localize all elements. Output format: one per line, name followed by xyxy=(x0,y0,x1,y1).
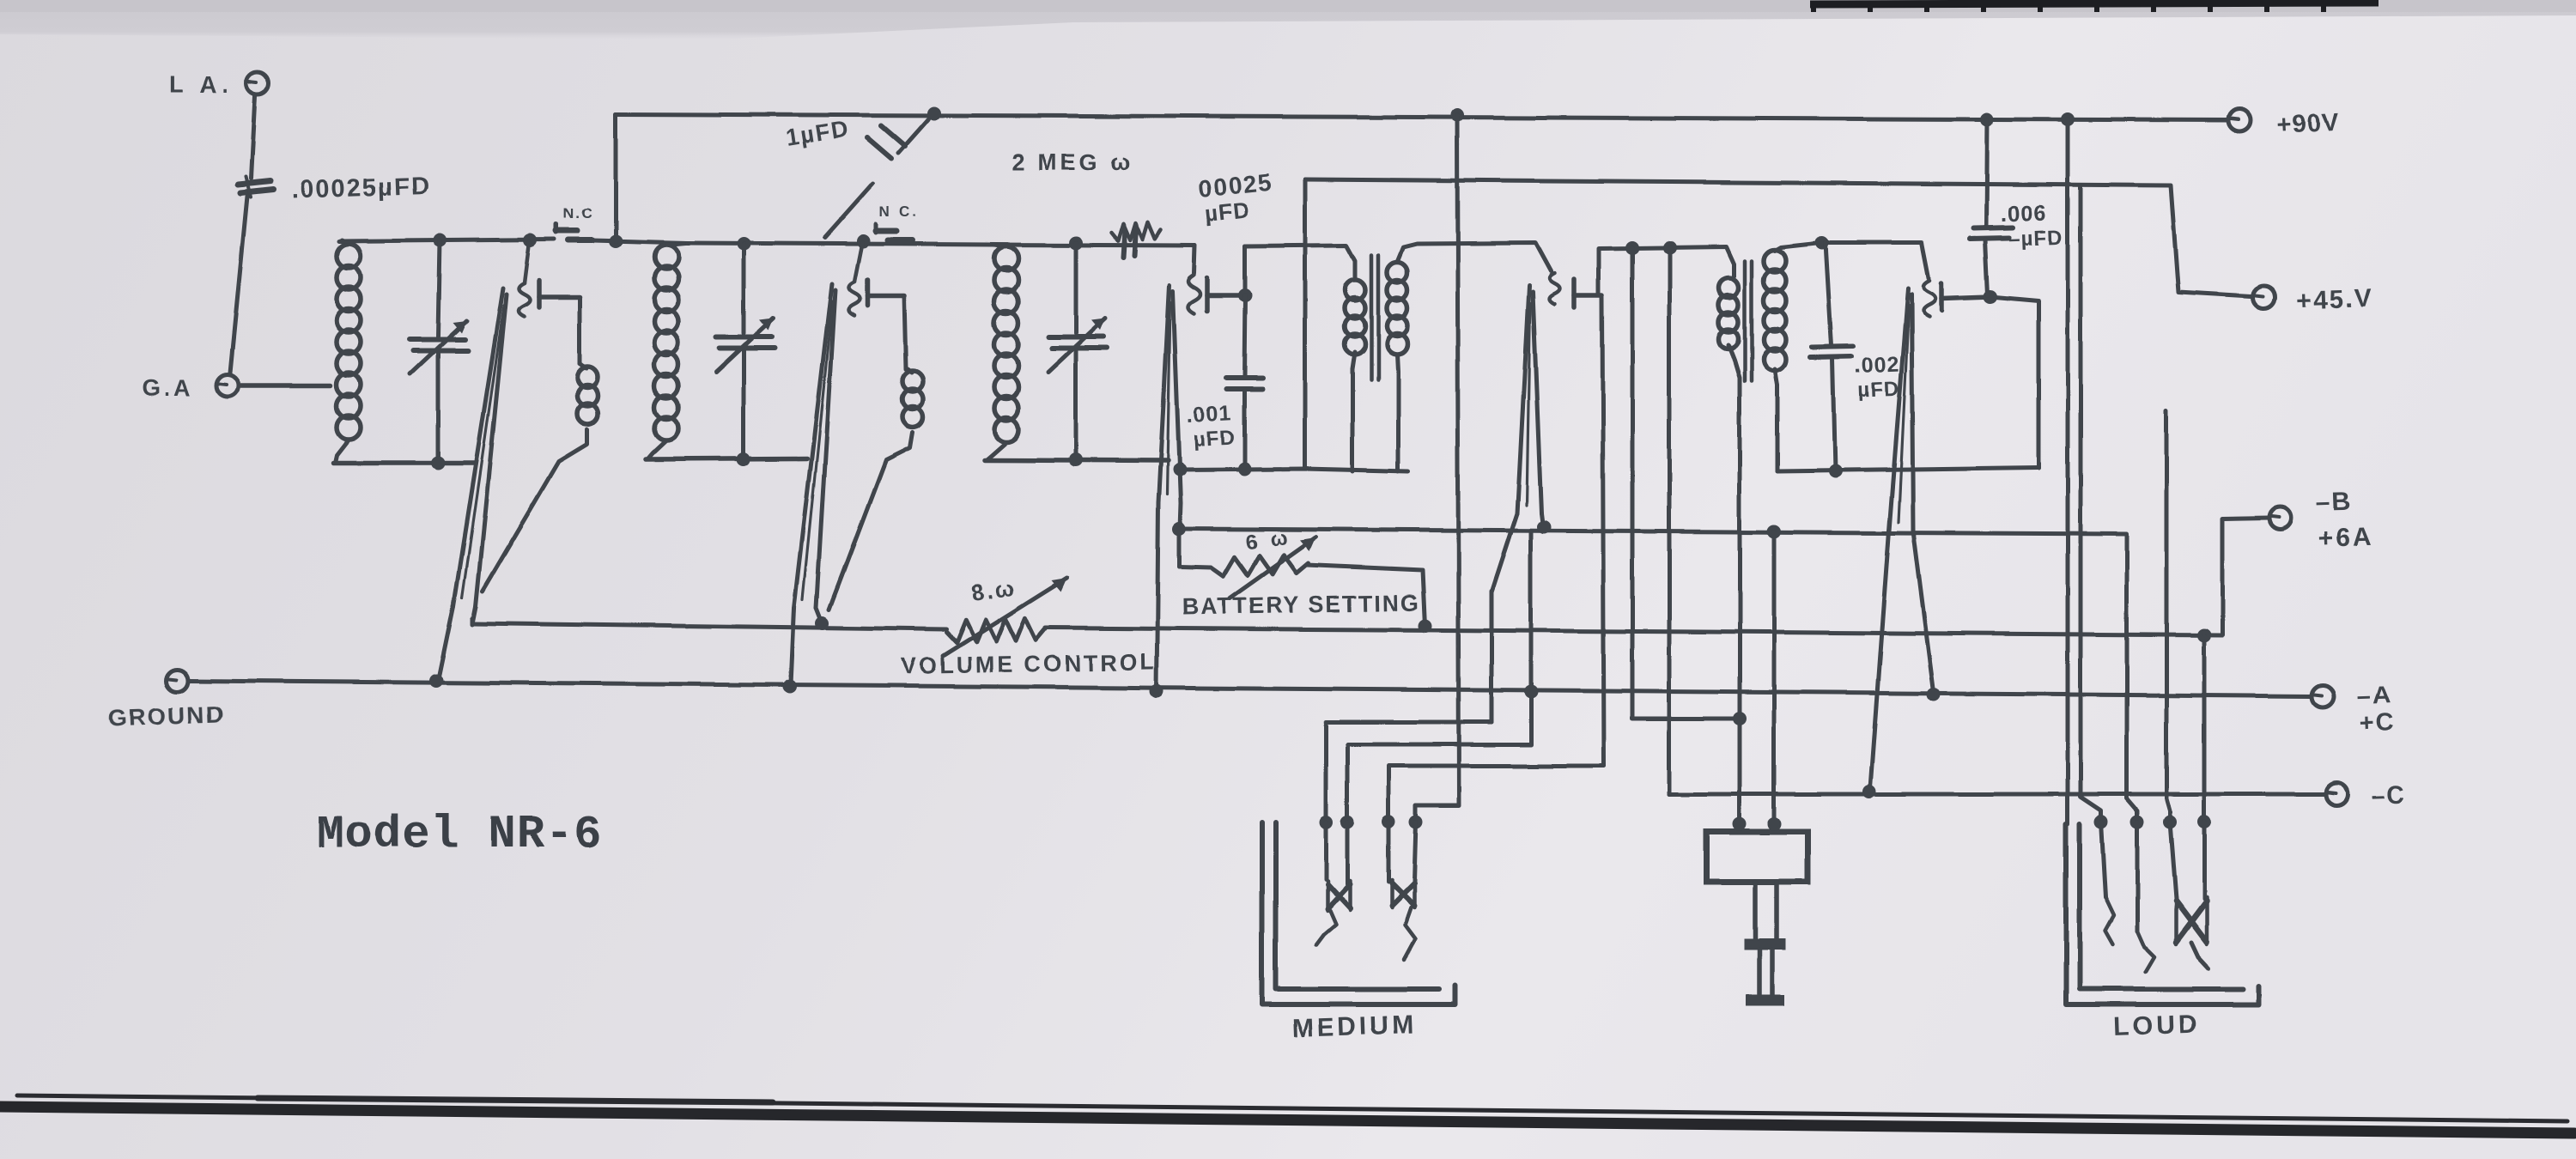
junction medium pin2 riser on ground bus xyxy=(1524,685,1538,699)
junction plug feed on battery bus xyxy=(1767,525,1781,538)
wire T1 secondary bottom lead xyxy=(1397,355,1398,471)
tuning coil L2 xyxy=(647,243,685,459)
svg-text:µFD: µFD xyxy=(1203,197,1250,227)
junction medium pin4 xyxy=(1409,815,1423,828)
bottom wire stage 2 xyxy=(646,458,807,459)
grid squiggle V3 xyxy=(1188,275,1200,313)
terminal +45V xyxy=(2253,284,2373,315)
svg-text:N.C: N.C xyxy=(563,205,593,221)
junction C3 on bottom wire xyxy=(1069,453,1083,467)
wire battery bus y618 xyxy=(1179,529,2137,820)
terminal L.A. xyxy=(169,71,269,98)
antenna capacitor .00025 MFD xyxy=(238,172,431,204)
rheostat 6 ohm battery setting xyxy=(1179,555,1309,576)
wire grid return riser xyxy=(1990,297,2038,468)
junction V2 leg on volume wire xyxy=(816,616,829,630)
junction .001 on y549 xyxy=(1237,462,1251,476)
wire medium pin3 feed xyxy=(1388,766,1604,820)
wire loud pin1 feed xyxy=(2081,185,2101,820)
plate bar V1 xyxy=(539,281,580,307)
rheostat 8 ohm volume control xyxy=(946,618,1046,643)
svg-text:MEDIUM: MEDIUM xyxy=(1291,1010,1418,1043)
svg-text:–A: –A xyxy=(2356,682,2392,710)
wire G.A to coil L1 xyxy=(240,383,331,388)
wire +45V drop to transformer T1 xyxy=(1303,179,1308,469)
medium jack bracket xyxy=(1262,822,1455,1004)
loud jack contact hooks xyxy=(2101,822,2154,972)
junction plug pin B xyxy=(1767,817,1781,831)
terminal -C xyxy=(2325,781,2407,810)
wire +90V bus left corner xyxy=(614,114,618,241)
wire .002 top lead xyxy=(1826,243,1832,345)
svg-text:+6A: +6A xyxy=(2318,523,2374,553)
wire drop x1944 to -C bus corner xyxy=(1668,248,1672,794)
wire T2 secondary bottom lead xyxy=(1775,369,1777,471)
svg-text:+C: +C xyxy=(2359,709,2396,737)
tickler coil V1 plate xyxy=(577,364,598,424)
junction battery rheostat on volume wire xyxy=(1419,619,1432,633)
plate bar V5 xyxy=(1941,283,1990,311)
terminal -A +C xyxy=(2312,682,2396,737)
terminal GROUND xyxy=(107,670,225,731)
wire capacitor to G.A xyxy=(230,197,247,373)
wire V4 left leg down xyxy=(1490,591,1494,722)
junction grid tap tube V1 xyxy=(524,234,538,247)
wire C3 bottom lead xyxy=(1074,351,1078,459)
wire grid lead V2 xyxy=(854,243,862,282)
wire output grid lead xyxy=(1820,243,1929,278)
junction plug pin A xyxy=(1733,817,1747,831)
wire loud pin3 feed xyxy=(2166,410,2170,820)
junction V4 leg on battery bus xyxy=(1537,520,1551,534)
variable capacitor C2 xyxy=(716,335,771,340)
wire plate V1 to tickler xyxy=(578,297,582,364)
grid wire stage 1 xyxy=(339,240,555,241)
transformer T1 secondary coil xyxy=(1387,262,1407,282)
svg-text:L A.: L A. xyxy=(169,71,234,98)
junction medium-jack drop on +90V bus xyxy=(1450,108,1464,122)
junction V2 leg on ground bus xyxy=(783,680,797,694)
svg-text:.006: .006 xyxy=(2000,199,2048,227)
+90V bus wire xyxy=(616,114,2228,120)
wire filament bus y731 to -B riser xyxy=(1046,518,2269,635)
grid squiggle V2 xyxy=(849,282,860,315)
coupling capacitor .001 MFD xyxy=(1186,378,1262,452)
transformer T2 primary coil xyxy=(1719,278,1739,298)
junction V1 leg on ground bus xyxy=(429,674,443,688)
svg-text:–B: –B xyxy=(2315,488,2352,517)
bypass capacitor 1 MFD diagonal xyxy=(784,114,933,238)
plate bar V2 xyxy=(867,280,904,306)
loud jack bracket xyxy=(2066,824,2258,1004)
svg-text:+45.V: +45.V xyxy=(2296,284,2373,315)
junction plug feed h837 xyxy=(1733,712,1747,725)
bypass capacitor .006 MFD xyxy=(1970,199,2063,251)
transformer T2 core xyxy=(1745,261,1752,381)
svg-text:.002: .002 xyxy=(1854,352,1900,378)
grid squiggle V1 xyxy=(519,283,531,317)
wire plate V3 to T1 primary top xyxy=(1245,246,1355,280)
tube V5 filament xyxy=(1870,288,1934,788)
phone plug stem xyxy=(1744,882,1786,1006)
junction plate V3 xyxy=(1238,288,1252,302)
arrow battery rheostat xyxy=(1230,537,1315,598)
wire V1 right leg to volume wire xyxy=(471,618,475,624)
svg-text:GROUND: GROUND xyxy=(107,701,225,731)
tuning coil L1 xyxy=(335,240,361,463)
wire drop +90 to medium pin4 xyxy=(1416,115,1459,820)
wire C1 top lead xyxy=(438,240,440,337)
variable capacitor C1 xyxy=(410,337,465,343)
junction drop x1944 on plate wire xyxy=(1662,241,1676,255)
wire .006 bottom lead xyxy=(1985,240,1988,295)
plate bar V3 xyxy=(1207,278,1245,311)
svg-text:Model NR-6: Model NR-6 xyxy=(316,809,603,861)
junction .002 top xyxy=(1815,236,1829,250)
wire L.A. to antenna capacitor xyxy=(251,96,255,179)
bottom wire stage 3 xyxy=(984,460,1168,461)
svg-text:+90V: +90V xyxy=(2276,108,2340,139)
junction V5 leg on ground bus xyxy=(1927,688,1941,701)
wire .002 bottom lead xyxy=(1832,358,1835,471)
wire battery rheostat left leg xyxy=(1177,529,1182,567)
arrow volume rheostat xyxy=(943,578,1067,656)
wire grid lead V1 xyxy=(525,242,530,283)
wire -C bus xyxy=(1669,792,2325,797)
tube V1 filament xyxy=(438,288,507,681)
svg-text:BATTERY SETTING: BATTERY SETTING xyxy=(1182,590,1421,620)
wire +90 drop to loud bracket xyxy=(2066,119,2070,824)
junction V5 left leg on -C bus xyxy=(1862,785,1876,798)
junction loud pin1 xyxy=(2094,815,2108,828)
tube V2 filament xyxy=(791,283,835,685)
wire grid return bus y549 right xyxy=(1777,468,2038,471)
wire T1 primary bottom lead xyxy=(1352,352,1355,471)
junction loud pin4 xyxy=(2197,815,2211,828)
tuning coil L3 xyxy=(986,245,1018,460)
grid wire after switch xyxy=(592,240,687,243)
svg-text:VOLUME CONTROL: VOLUME CONTROL xyxy=(901,649,1157,679)
grid wire stage 2 xyxy=(687,243,996,245)
svg-text:N C.: N C. xyxy=(879,203,919,220)
junction medium pin2 xyxy=(1340,815,1354,828)
tickler coil V2 plate xyxy=(902,367,923,428)
junction V3 leg on battery bus xyxy=(1172,522,1186,536)
grid wire stage 3 xyxy=(994,245,1195,246)
switch N.C. stage 2 xyxy=(876,203,919,240)
svg-text:.00025µFD: .00025µFD xyxy=(291,172,431,204)
grid squiggle V4 xyxy=(1549,273,1559,304)
wire medium pin1 feed xyxy=(1326,722,1492,820)
svg-text:–µFD: –µFD xyxy=(2008,226,2063,251)
wire tickler bottom to cathode return xyxy=(483,429,587,591)
plate bar V4 xyxy=(1574,279,1602,307)
svg-text:–C: –C xyxy=(2371,781,2407,810)
wire T1 secondary top lead xyxy=(1397,243,1551,271)
variable capacitor C3 xyxy=(1048,335,1103,340)
junction loud pin3 xyxy=(2163,815,2177,828)
wire drop x1901 to plug feed xyxy=(1632,248,1740,719)
medium jack contact pair 1 xyxy=(1316,822,1350,944)
junction 1MFD on +90V bus xyxy=(927,106,941,120)
grid squiggle V5 xyxy=(1923,281,1935,317)
grid leak resistor 2 MEG xyxy=(1111,222,1161,241)
junction medium pin3 xyxy=(1382,815,1395,828)
bottom page rule lines xyxy=(0,1095,2574,1133)
junction C2 on bottom wire xyxy=(737,452,750,466)
capacitor .002 MFD xyxy=(1810,346,1900,402)
label .00025 MFD detector grid cap xyxy=(1196,168,1274,227)
terminal +90V xyxy=(2228,108,2340,139)
grid wire to V3 xyxy=(1194,246,1195,273)
wire ground bus to -A terminal xyxy=(188,681,2312,696)
junction loud pin4 drop on volume wire xyxy=(2197,628,2211,642)
wire plate V3 up to transformer xyxy=(1243,246,1248,295)
wire C3 top lead xyxy=(1074,243,1078,333)
junction V3 leg on ground bus xyxy=(1150,684,1163,698)
svg-text:µFD: µFD xyxy=(1857,377,1900,402)
wire .001 bottom lead xyxy=(1242,391,1247,468)
tube V3 filament xyxy=(1157,285,1181,691)
wire C2 top lead xyxy=(742,244,746,333)
wire .006 top lead xyxy=(1986,119,1987,228)
wire plate V3 down to coupling cap xyxy=(1244,295,1245,376)
bottom wire stage 1 xyxy=(333,460,474,465)
wire T2 secondary top lead xyxy=(1775,243,1820,251)
wire battery rheostat right leg xyxy=(1307,565,1425,626)
wire tickler2 bottom return xyxy=(829,433,913,610)
tube V4 filament xyxy=(1492,286,1543,592)
wire plate V4 up to T2 xyxy=(1599,247,1734,295)
transformer T2 secondary coil xyxy=(1764,250,1786,272)
svg-text:G.A: G.A xyxy=(143,375,194,401)
junction medium pin1 xyxy=(1319,815,1333,828)
junction grid tap tube V2 xyxy=(856,234,870,248)
medium jack contact pair 2 xyxy=(1388,822,1416,960)
junction loud-jack drop on +90V bus xyxy=(2061,112,2075,126)
transformer T1 primary coil xyxy=(1345,280,1365,300)
junction var cap C3 top xyxy=(1069,236,1083,250)
wire plug pin2 feed xyxy=(1668,791,1672,794)
svg-text:.001: .001 xyxy=(1186,401,1232,428)
svg-text:LOUD: LOUD xyxy=(2113,1010,2201,1041)
transformer T1 core xyxy=(1371,255,1378,379)
wire loud pin4 feed xyxy=(2202,635,2207,820)
phone plug jack body xyxy=(1707,832,1807,882)
wire medium pin2 feed xyxy=(1347,532,1531,820)
switch N.C. stage 1 xyxy=(556,205,593,240)
terminal -B +6A xyxy=(2269,488,2374,553)
junction .006 bottom on grid wire xyxy=(1984,290,1997,304)
+45V bus wire xyxy=(1305,179,2251,296)
wire cathode bus y549 xyxy=(1180,469,1408,471)
table fragment top right xyxy=(1810,1,2379,12)
junction .002 on y549 xyxy=(1828,464,1842,478)
junction var cap C1 top xyxy=(433,234,447,247)
junction +90V bus drop xyxy=(609,234,623,248)
terminal G.A xyxy=(143,374,239,401)
loud jack contact pair X xyxy=(2170,822,2208,968)
junction C1 on bottom wire xyxy=(431,456,445,470)
grid leak capacitor xyxy=(1123,228,1136,258)
svg-text:2 MEG ω: 2 MEG ω xyxy=(1012,149,1133,175)
junction .006 cap on +90V bus xyxy=(1980,112,1994,126)
junction V3 leg on y549 xyxy=(1173,463,1187,476)
wire C2 bottom lead xyxy=(742,351,746,459)
svg-text:µFD: µFD xyxy=(1193,426,1236,452)
junction loud pin2 xyxy=(2130,815,2144,828)
junction drop to plug on plate wire xyxy=(1625,241,1639,255)
wire plate bar V4 down to medium jack xyxy=(1602,297,1604,766)
wire T2 primary bottom lead to plug xyxy=(1728,345,1740,826)
wire plate V2 to tickler xyxy=(904,296,906,369)
junction var cap C2 top xyxy=(737,237,750,251)
wire C1 bottom lead xyxy=(436,354,440,463)
wire filament bus y727 volume xyxy=(472,623,946,629)
